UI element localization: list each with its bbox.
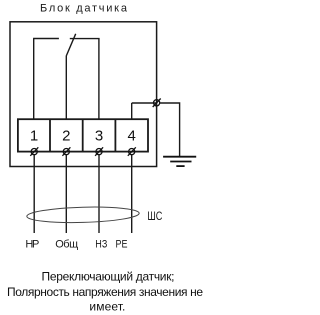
wire: РЕ lead (below terminal 4)	[131, 155, 133, 233]
svg-text:НР: НР	[25, 239, 39, 251]
svg-text:Общ: Общ	[55, 239, 78, 251]
screw terminal 3	[95, 147, 103, 156]
svg-text:имеет.: имеет.	[89, 299, 125, 313]
enclosure wall node (bushing)	[153, 99, 161, 108]
terminal divider 3-4	[114, 119, 116, 151]
wire: Общ lead (below terminal 2)	[65, 155, 67, 233]
note text	[7, 270, 203, 314]
svg-text:1: 1	[30, 128, 38, 145]
svg-text:Переключающий датчик;: Переключающий датчик;	[42, 270, 175, 284]
screw terminal 4	[128, 147, 136, 156]
wire: НЗ lead (below terminal 3)	[98, 155, 100, 233]
terminal divider 2-3	[82, 119, 84, 151]
svg-text:3: 3	[95, 128, 103, 145]
terminal divider 1-2	[49, 119, 51, 151]
svg-text:2: 2	[62, 128, 70, 145]
screw terminal 2	[62, 147, 70, 156]
sensor enclosure box	[10, 22, 157, 167]
svg-text:РЕ: РЕ	[116, 239, 128, 251]
loop ШС ellipse	[27, 206, 140, 224]
terminal block outline	[18, 119, 148, 151]
wire: node to earth drop	[160, 103, 180, 157]
svg-text:Блок датчика: Блок датчика	[40, 2, 128, 14]
wire: terminal 2 riser (common)	[65, 56, 67, 119]
wire: terminal 3 riser	[98, 39, 100, 120]
wire: НР lead (below terminal 1)	[33, 155, 35, 233]
svg-text:Полярность напряжения значения: Полярность напряжения значения не	[7, 285, 203, 299]
earth ground symbol	[163, 157, 196, 166]
svg-text:4: 4	[128, 128, 136, 145]
NO fixed contact (НР side)	[33, 38, 59, 40]
NC fixed contact (НЗ side)	[70, 38, 100, 40]
switch blade (common to НЗ, closed)	[66, 34, 75, 56]
wire: terminal 1 riser	[33, 39, 35, 120]
screw terminal 1	[30, 147, 38, 156]
wire: terminal 4 to enclosure node	[132, 102, 157, 104]
svg-text:ШС: ШС	[147, 209, 162, 223]
svg-text:НЗ: НЗ	[95, 239, 107, 251]
wire: terminal 4 riser	[131, 103, 133, 119]
